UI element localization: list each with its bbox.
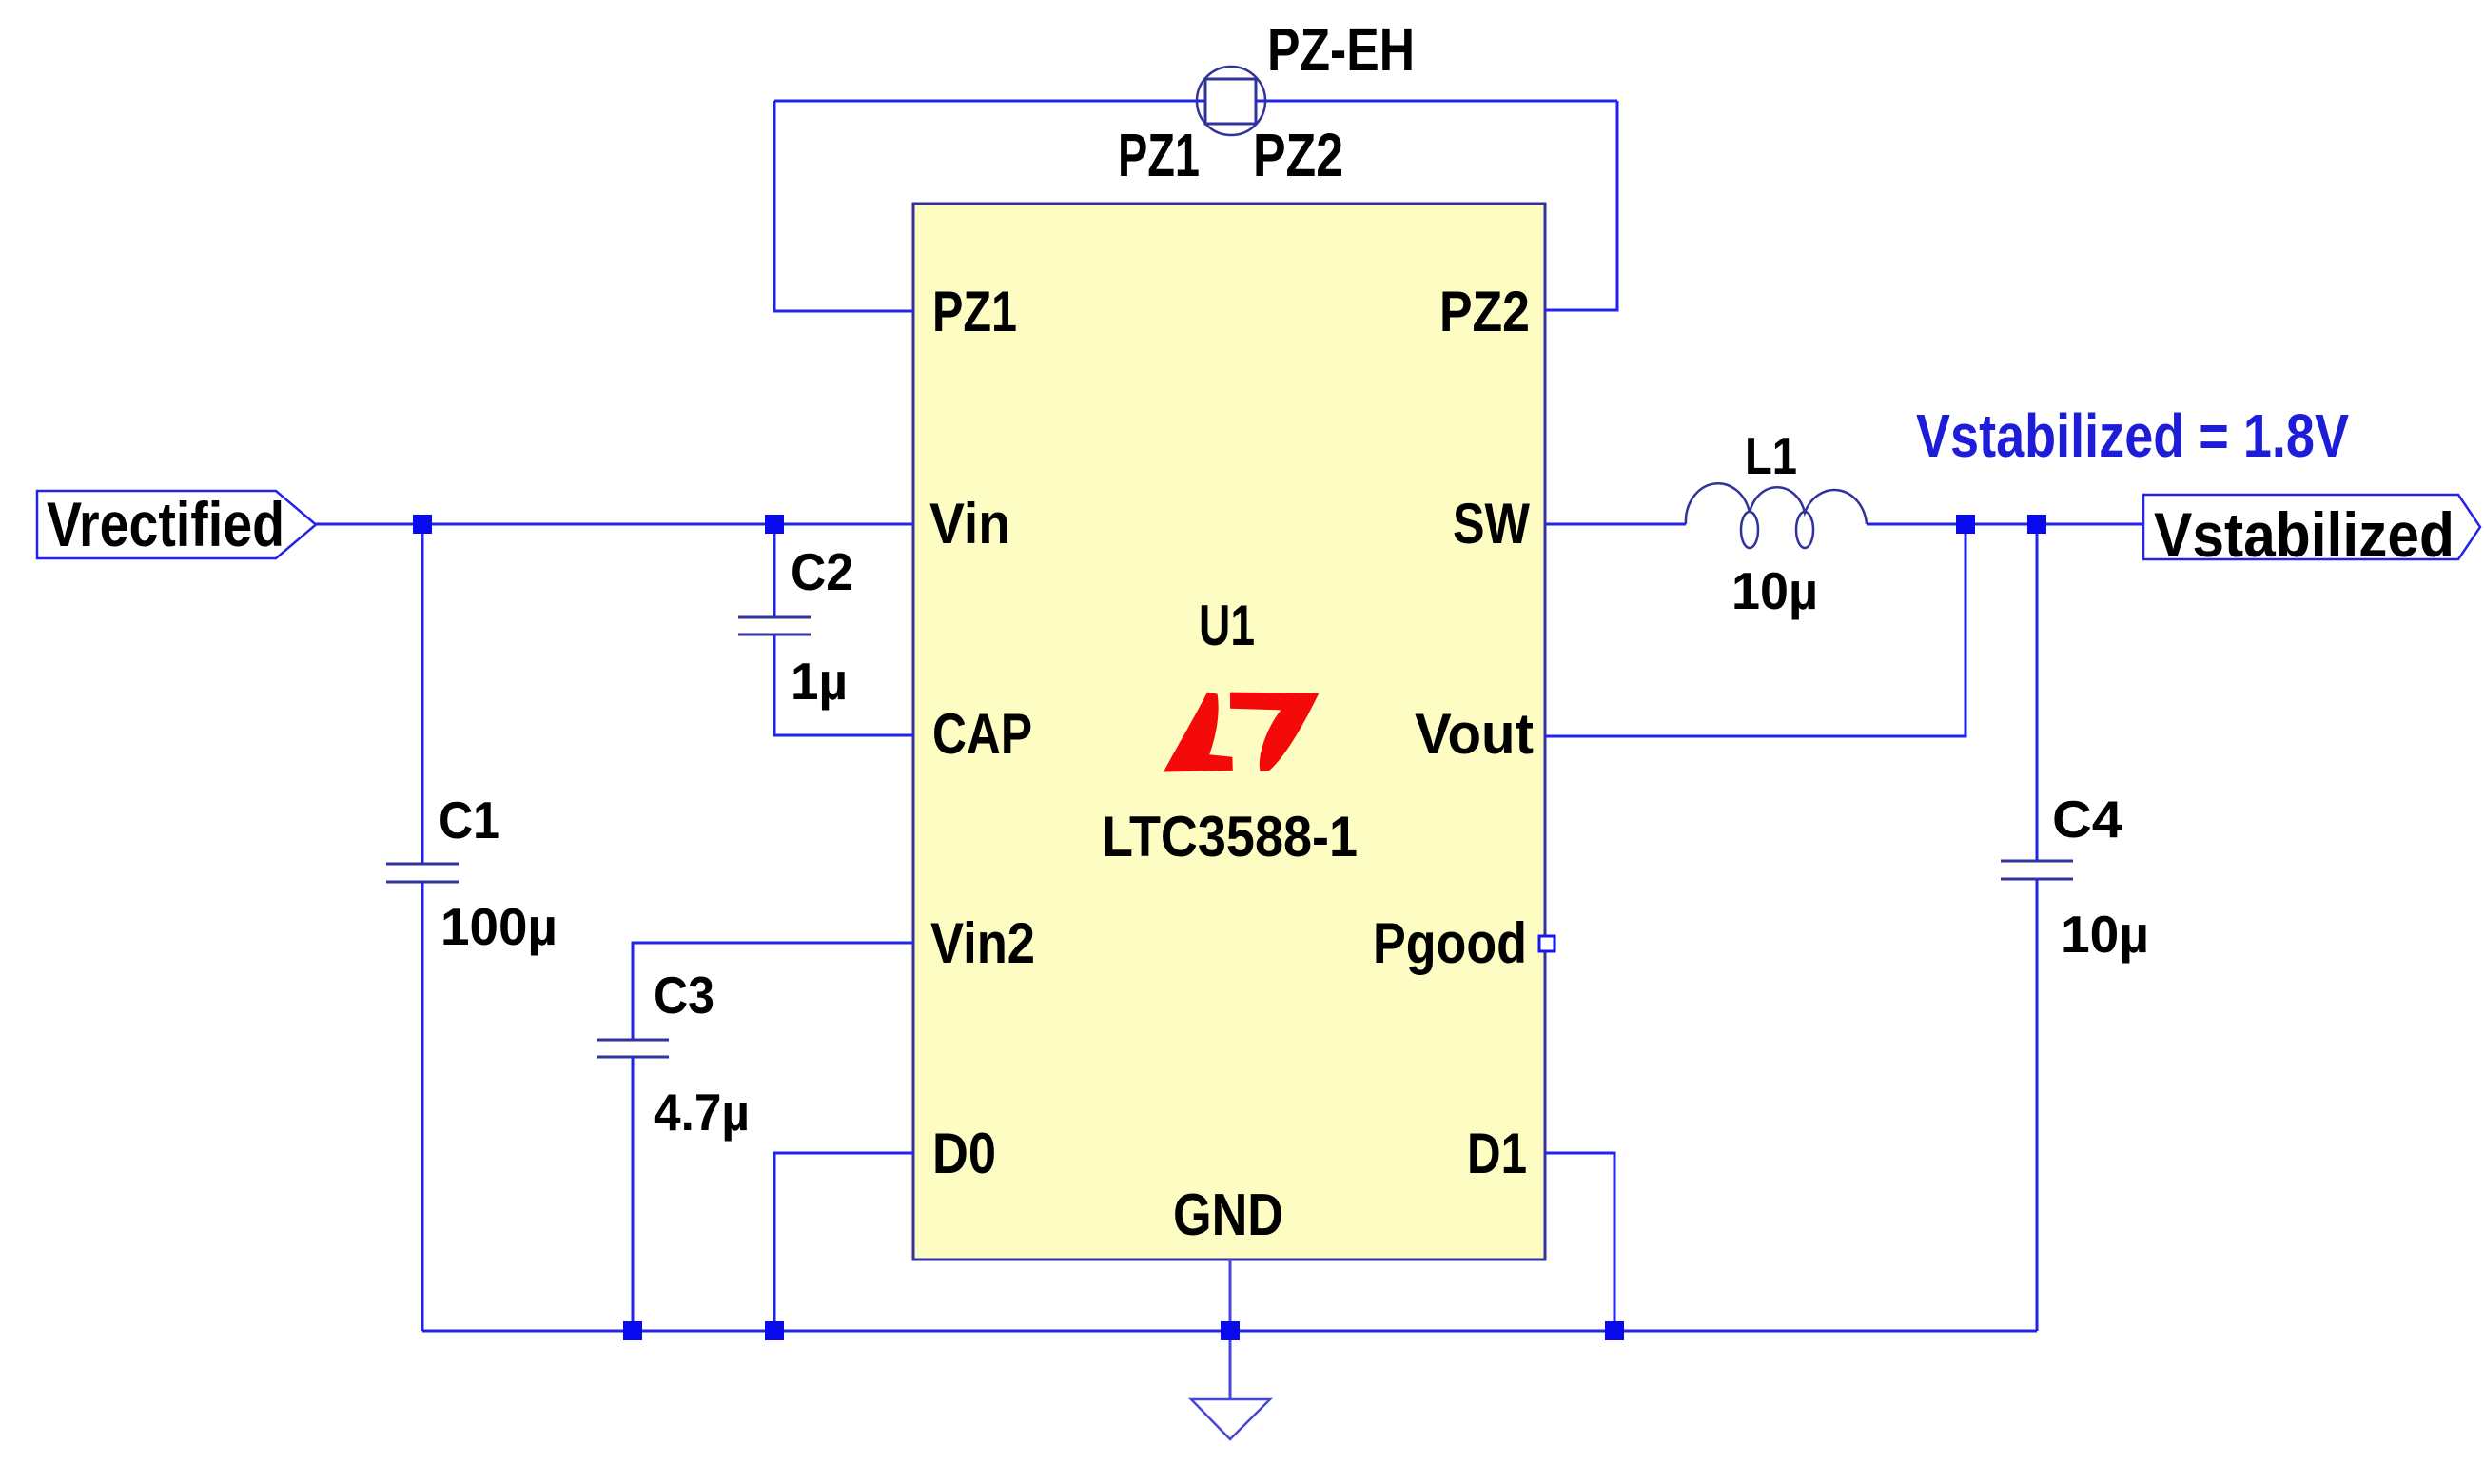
wire SW pin to L1 [1545, 523, 1686, 526]
svg-text:PZ2: PZ2 [1439, 280, 1530, 343]
wire C4 top vertical [2036, 524, 2039, 861]
svg-text:Vout: Vout [1415, 702, 1534, 766]
node Vrectified flag [37, 491, 316, 558]
svg-text:GND: GND [1173, 1182, 1283, 1248]
node junction Vin/C2 [765, 515, 784, 534]
svg-text:D0: D0 [932, 1122, 996, 1185]
svg-text:PZ-EH: PZ-EH [1267, 15, 1415, 84]
node junction Vrectified/C1 [413, 515, 432, 534]
svg-text:CAP: CAP [932, 702, 1032, 766]
wire C1 branch vertical [421, 524, 424, 864]
pin Pgood unconnected marker [1539, 936, 1555, 951]
svg-text:Vstabilized: Vstabilized [2154, 499, 2455, 570]
svg-text:PZ1: PZ1 [932, 280, 1017, 343]
svg-text:Vstabilized = 1.8V: Vstabilized = 1.8V [1916, 401, 2349, 470]
inductor L1 coil [1686, 483, 1867, 548]
wire D0 pin branch [774, 1153, 913, 1331]
wire top net PZ1-PZ2 horizontal [774, 100, 1617, 103]
ground symbol [1191, 1399, 1270, 1439]
svg-text:10µ: 10µ [2061, 905, 2149, 964]
wire D1 pin branch [1545, 1153, 1614, 1331]
svg-text:C1: C1 [439, 791, 499, 849]
capacitor C3 plates [597, 1040, 669, 1057]
piezo transducer PZ-EH square [1205, 79, 1256, 124]
capacitor C2 plates [738, 617, 811, 635]
wire GND stub [1229, 1259, 1232, 1399]
wire C2 bottom to CAP pin [774, 635, 913, 735]
wire Vrectified input [302, 523, 913, 526]
wire C1 bottom vertical [421, 882, 424, 1331]
node junction output/Vout [1956, 515, 1975, 534]
logo LT red left glyph [1164, 693, 1233, 772]
svg-text:10µ: 10µ [1731, 561, 1818, 620]
node junction ground/GND [1221, 1321, 1240, 1340]
wire C3 bottom vertical [632, 1057, 635, 1331]
svg-text:C4: C4 [2052, 790, 2122, 849]
svg-text:D1: D1 [1467, 1122, 1527, 1185]
svg-text:Pgood: Pgood [1373, 911, 1527, 975]
svg-text:1µ: 1µ [791, 652, 848, 711]
wire bottom ground rail [422, 1330, 2037, 1333]
node Vstabilized flag [2143, 495, 2480, 559]
wire right vertical to PZ2 [1545, 101, 1617, 310]
svg-text:C3: C3 [654, 966, 714, 1025]
svg-text:PZ1: PZ1 [1118, 121, 1200, 189]
piezo transducer PZ-EH circle [1197, 67, 1265, 135]
logo LT red right glyph [1230, 693, 1319, 771]
wire C2 top vertical [773, 524, 776, 617]
svg-text:100µ: 100µ [440, 897, 557, 956]
node junction ground/C3 [623, 1321, 642, 1340]
svg-text:C2: C2 [791, 542, 853, 601]
capacitor C1 plates [386, 864, 459, 882]
svg-text:4.7µ: 4.7µ [654, 1083, 750, 1142]
wire L1 to Vstabilized label [1867, 523, 2143, 526]
IC U1 LTC3588-1 body [913, 204, 1545, 1259]
svg-text:SW: SW [1453, 492, 1530, 556]
node junction output/C4 [2027, 515, 2046, 534]
wire left vertical to PZ1 [774, 101, 913, 311]
svg-text:Vrectified: Vrectified [47, 489, 284, 559]
svg-text:Vin: Vin [929, 492, 1010, 556]
svg-text:L1: L1 [1745, 426, 1797, 485]
node junction ground/D0 [765, 1321, 784, 1340]
svg-text:Vin2: Vin2 [930, 911, 1035, 975]
svg-text:PZ2: PZ2 [1253, 121, 1343, 189]
svg-text:LTC3588-1: LTC3588-1 [1102, 805, 1358, 869]
svg-text:U1: U1 [1199, 594, 1255, 657]
node junction ground/D1 [1605, 1321, 1624, 1340]
wire C4 bottom vertical [2036, 879, 2039, 1331]
capacitor C4 plates [2001, 861, 2073, 879]
wire Vin2 to C3 [633, 943, 913, 1040]
wire Vout feedback up to output net [1545, 524, 1966, 736]
